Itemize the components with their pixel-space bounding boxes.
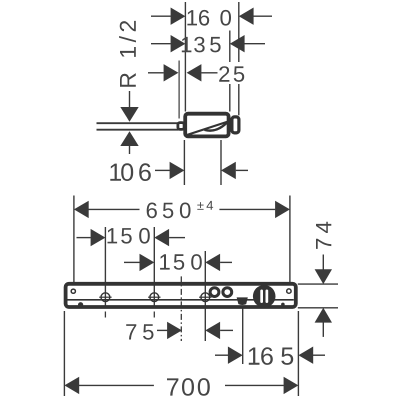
dimension line R1/2 lower tail <box>129 146 131 154</box>
dimension line 75 right tail <box>220 329 233 331</box>
small ring right <box>287 289 291 293</box>
arrow 74 up <box>315 308 332 323</box>
bar body outline <box>66 284 296 307</box>
label 25 <box>219 66 244 82</box>
label 106 <box>110 163 151 181</box>
dimension line R1/2 upper tail <box>129 91 131 107</box>
dimension line 25 left tail <box>148 72 164 74</box>
extension line 160 right lower <box>238 84 240 115</box>
extension line below body right <box>220 140 222 185</box>
label 165 <box>249 347 293 365</box>
ring 2 <box>223 288 232 297</box>
handle blob <box>237 297 248 305</box>
drill hole 2 <box>150 293 159 302</box>
arrow 650 left <box>74 201 89 218</box>
extension line 135 right lower <box>229 84 231 112</box>
label 160 <box>187 10 231 26</box>
extension line thin inner 25-left <box>178 61 180 119</box>
dial slot 1 <box>260 290 263 304</box>
dial filled circle <box>253 285 276 308</box>
label 74 rotated <box>316 222 331 249</box>
drill hole 2 cross line <box>148 296 160 298</box>
fixture body (side view) <box>185 114 228 137</box>
small circle left <box>71 289 75 293</box>
arrow 135 right <box>230 35 245 52</box>
arrow 106 left <box>170 162 185 179</box>
arrow 75 left <box>167 322 182 339</box>
arrow 165 left <box>228 347 243 364</box>
fixture left tab <box>178 123 184 130</box>
dimension line 74 upper tail <box>322 255 324 270</box>
label 75 <box>126 324 153 340</box>
drill hole 3 <box>201 293 210 302</box>
centerline dash-dot <box>180 276 182 341</box>
extension line 74 top <box>298 283 338 285</box>
dimension line 165 left tail <box>215 354 228 356</box>
dimension line 135 left tail <box>151 43 171 45</box>
dimension line 160 right tail <box>253 15 272 17</box>
extension line below body left <box>183 140 185 185</box>
label 150 first <box>108 228 150 244</box>
dimension line 150b left tail <box>124 261 140 263</box>
drill hole 3 cross line <box>199 296 211 298</box>
extension line 700/165 right <box>297 311 299 396</box>
arrow 150a left <box>91 229 106 246</box>
pipe inlet bottom line <box>97 129 179 131</box>
arrow R1/2 down <box>120 107 138 122</box>
ring 1 <box>210 288 219 297</box>
pipe inlet top line <box>97 122 179 124</box>
extension line 700 left <box>63 311 65 396</box>
fixture diagonal lever <box>186 121 229 135</box>
extension line 135 right upper <box>229 31 231 63</box>
fixture lever knob arc <box>205 123 227 131</box>
dimension line 106 left tail <box>155 169 170 171</box>
extension line 74 bottom <box>298 307 338 309</box>
extension line 650 left <box>73 196 75 283</box>
fixture right connector <box>232 117 239 133</box>
dimension line 165 right tail <box>313 354 325 356</box>
dimension line 160 left tail <box>151 15 171 17</box>
dimension line 700 left tail <box>79 384 154 386</box>
arrow 150a right <box>154 229 169 246</box>
arrow 106 right <box>221 162 236 179</box>
arrow 74 down <box>315 269 332 284</box>
dimension line 106 right tail <box>236 169 248 171</box>
dimension line 25 right tail <box>201 72 217 74</box>
arrow 700 left <box>64 377 79 394</box>
extension line hole2 <box>153 227 155 307</box>
dimension line 700 right tail <box>225 384 284 386</box>
dimension line 75 left tail <box>157 329 168 331</box>
arrow 25 left <box>164 64 179 81</box>
extension line 160 right upper <box>238 2 240 62</box>
extension line handle <box>242 306 244 364</box>
dimension line 650 right tail <box>219 208 275 210</box>
dimension line 150b right tail <box>220 261 232 263</box>
arrow R1/2 up <box>120 131 138 146</box>
dimension line 74 lower tail <box>322 322 324 337</box>
arrow 160 right <box>239 8 254 25</box>
label 135 <box>182 37 221 53</box>
label 700 <box>167 378 210 396</box>
dimension line 150a right tail <box>169 237 185 239</box>
dimension line 150a left tail <box>77 237 91 239</box>
drill hole 1 <box>101 293 110 302</box>
small dot right <box>281 303 285 307</box>
dimension line 650 left tail <box>89 208 140 210</box>
arrow 150b left <box>140 254 155 271</box>
label R 1/2 rotated <box>119 21 136 87</box>
extension line left main (top view) <box>184 2 186 112</box>
drill hole 1 cross line <box>99 296 111 298</box>
arrow 75 right <box>205 322 220 339</box>
arrow 160 left <box>171 8 186 25</box>
extension line hole3 <box>204 251 206 341</box>
dial slot 2 <box>266 290 269 304</box>
hole2 dash below bar <box>153 312 155 318</box>
arrow 165 right <box>298 347 313 364</box>
filled dot left <box>78 302 83 307</box>
extension line 650 right <box>289 196 291 283</box>
label plus-minus 4 <box>197 201 213 210</box>
bar inner shelf line <box>67 299 294 301</box>
label 150 second <box>160 254 202 270</box>
label 650 <box>147 203 191 219</box>
arrow 150b right <box>205 254 220 271</box>
arrow 135 left <box>171 35 186 52</box>
arrow 650 right <box>275 201 290 218</box>
arrow 25 right <box>187 64 202 81</box>
dimension line 135 right tail <box>244 43 265 45</box>
hole1 dash below bar <box>104 312 106 318</box>
arrow 700 right <box>284 377 299 394</box>
extension line hole1 <box>104 227 106 307</box>
